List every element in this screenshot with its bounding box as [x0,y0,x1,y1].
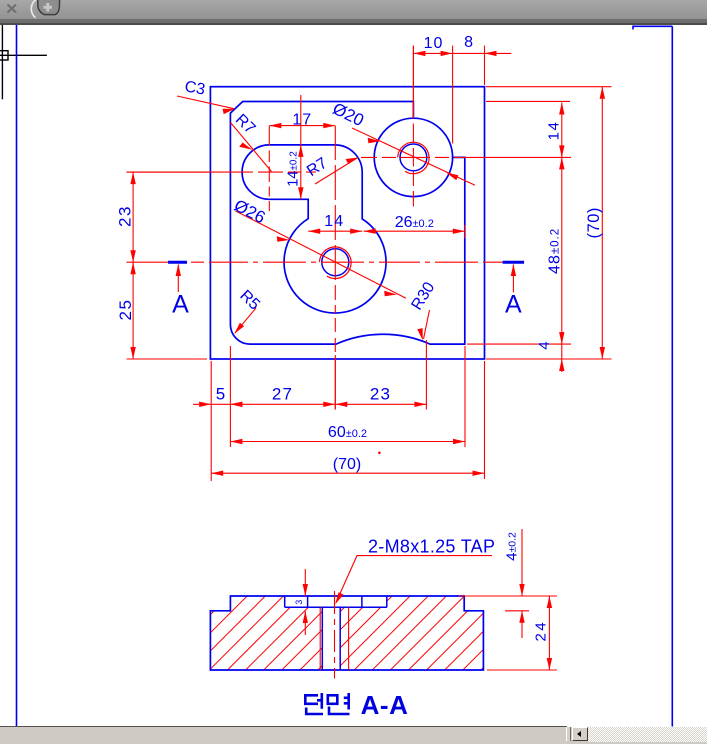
R7 slot fillet arrowhead [346,158,358,164]
svg-text:14±0.2: 14±0.2 [286,151,302,187]
crosshair cursor horizontal [0,54,47,56]
crosshair cursor vertical [1,25,3,99]
toolbar icons svg [0,0,707,25]
G_TEXTS [116,34,604,473]
arrows dim 17 [269,123,281,128]
hatch left block [132,585,421,675]
R7 leader top-left [231,123,272,172]
svg-text:26±0.2: 26±0.2 [395,214,434,231]
scrollbar splitter [566,727,571,741]
arrows dim 25 left col [130,262,135,274]
G_DIMLINES [127,46,612,611]
svg-text:4±0.2: 4±0.2 [504,532,521,561]
svg-text:25: 25 [116,299,135,321]
A arrow stems [178,265,513,293]
svg-text:A: A [505,291,522,319]
dim 4+-0.2 arrows [519,584,524,623]
bottom dim row 60 [230,346,465,447]
thread line left [319,607,321,670]
R7 top-left arrowhead [239,143,252,150]
arrows dim (70) bottom [211,471,223,476]
arrows dim 14 neck [308,229,320,234]
dim 4+-0.2 lines [459,529,557,638]
arrows dim 14 slot [298,145,303,157]
O26 recess floor [285,606,387,608]
bottom scrollbar base [0,727,707,744]
svg-text:Ø26: Ø26 [231,196,268,228]
arrows dim 5 [199,402,211,407]
R30 arrowhead [417,328,423,340]
outer square 70x70 [210,87,484,359]
svg-text:23: 23 [116,205,135,227]
arrows dim 48 right col [559,157,564,169]
pickbox square [0,51,8,60]
svg-text:4: 4 [536,341,553,349]
svg-text:3: 3 [294,600,304,605]
paper border top notch [633,26,672,29]
centerline O20 vertical [412,46,414,207]
thread line right [348,607,350,670]
tap leader line [336,556,492,603]
dim line 14 slot vertical [300,95,302,199]
island: slot + neck + O26 boss [242,145,386,313]
dim line 17 [269,125,335,127]
arrows dim 60 [230,439,242,444]
centerline O20 horizontal [361,156,466,158]
R30 leader [424,310,430,339]
G_CENTERLINES [127,46,503,410]
svg-text:5: 5 [216,385,225,404]
svg-text:8: 8 [464,34,473,51]
svg-text:24: 24 [533,620,550,642]
recess divider line left [307,596,309,607]
section line thick end left [168,261,187,264]
hangul MYEON glyph [328,693,350,714]
C3 arrowhead [223,109,235,114]
M8 tap hole at O26 center (blue drill circle) [322,249,349,276]
arrows dim 10 [413,51,425,56]
plus glyph on leaf [44,3,53,12]
svg-text:(70): (70) [333,456,361,473]
G_LEADER_ARROWS [223,109,459,341]
recess divider line right [361,596,363,607]
scrollbar dithered track [588,727,707,742]
arrows dim 26 [364,229,376,234]
svg-text:R7: R7 [232,111,259,138]
svg-text:(70): (70) [585,207,603,238]
right dim column (70) [486,87,612,359]
G_LEADERS [177,96,475,339]
centerline O26 vertical [334,126,336,410]
bottom dim row (70) [211,361,484,479]
svg-text:R30: R30 [408,279,438,313]
right dim column 14/48/4 [466,101,571,610]
G_ARROWS [130,51,605,476]
svg-text:10: 10 [424,35,444,52]
dim 3 arrows [303,584,308,623]
raised land contour with C3 chamfer, O20 arc, R30 wave, R5 fillet [230,102,464,345]
O20 arrowheads [368,138,381,144]
tap drill wall right [339,607,341,670]
tap hole centerline [334,591,336,679]
paper border left [16,25,18,727]
M8 thread circle at O20 center (red, with gap) [398,142,429,173]
R5 leader [235,308,256,333]
O20 leader [352,128,475,185]
M8 tap hole at O20 center (blue drill circle) [400,144,427,171]
svg-text:60±0.2: 60±0.2 [328,424,367,441]
stray red dot [378,452,381,455]
R5 arrowhead [234,323,244,334]
section outline [210,596,483,670]
new tab leaf icon [38,0,60,15]
O26 leader [235,211,406,298]
left dim column 23/25 [127,172,210,359]
dim 24 arrows [547,596,552,670]
recess wall left [284,596,286,607]
dim 24 lines [487,596,557,670]
svg-text:14: 14 [546,121,563,141]
arrows dim 23 left col [130,172,135,184]
svg-text:14: 14 [324,213,344,230]
C3 leader [177,96,234,109]
arrow dim 4 right col [559,359,564,371]
bottom dim row 5/27/23 [193,340,426,481]
svg-text:23: 23 [370,385,391,404]
tap drill wall left [321,607,323,670]
dim 3 lines [304,569,306,635]
arrows dim 23 bottom [335,402,347,407]
scrollbar left-arrow button [572,727,588,741]
svg-text:A: A [172,291,189,319]
svg-text:27: 27 [272,385,293,404]
svg-text:17: 17 [292,112,312,129]
tap leader arrowhead [335,592,343,604]
arrow dim 8 [485,51,497,56]
arrows dim 27 [230,402,335,407]
dim line 14 neck and 26 [308,225,465,238]
R7 leader slot fillet [315,158,358,185]
top dim line 10/8 [413,46,511,144]
svg-text:2-M8x1.25 TAP: 2-M8x1.25 TAP [368,537,495,557]
hangul DAN glyph [305,693,323,714]
O20 hole upper-right quadrant arc [413,118,452,157]
tab curve highlight [31,0,36,18]
svg-text:A-A: A-A [361,690,409,720]
O26 arrowheads [277,236,290,242]
arrows dim (70) right [600,87,605,99]
close x icon [8,5,17,13]
svg-text:C3: C3 [183,78,206,98]
hatch right block [259,585,584,675]
arrow A right [511,264,516,276]
svg-text:48±0.2: 48±0.2 [547,228,564,274]
arrows dim 14 right col [559,103,564,115]
svg-text:R5: R5 [236,287,263,314]
centerline slot horizontal [127,171,317,173]
toolbar gradient bar [0,0,707,19]
scrollbar top border line [0,726,567,728]
section line thick end right [503,261,524,264]
recess wall right [386,596,388,607]
arrow A left [176,264,181,276]
G_OUTLINE [210,87,484,359]
centerline slot vertical [268,126,270,211]
paper border right [671,26,673,726]
section line A-A horizontal dashdot [127,261,503,263]
M8 thread circle at O26 center (red, with gap) [320,247,352,279]
